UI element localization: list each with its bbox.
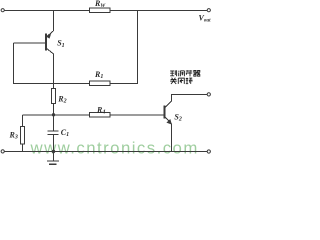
wire left feedback loop bbox=[14, 43, 90, 84]
terminal input top-left bbox=[1, 9, 4, 12]
terminal bottom-left bbox=[1, 150, 4, 153]
terminal bottom-right bbox=[207, 150, 210, 153]
svg-text:R2: R2 bbox=[57, 95, 66, 105]
hanzi 调 bbox=[178, 71, 184, 76]
wire top rail left bbox=[4, 10, 89, 12]
svg-text:C1: C1 bbox=[61, 128, 69, 138]
wire S1 emitter drop bbox=[47, 11, 53, 37]
wire R3 branch bbox=[22, 115, 24, 127]
hanzi 器 bbox=[194, 71, 200, 77]
node A junction dot bbox=[52, 113, 55, 116]
wire bottom rail bbox=[4, 151, 207, 153]
wire R2 to node A bbox=[53, 104, 55, 115]
hanzi 节 bbox=[186, 70, 192, 76]
wire R3 to bottom rail bbox=[22, 144, 24, 152]
svg-text:S1: S1 bbox=[57, 39, 64, 49]
svg-text:S2: S2 bbox=[174, 112, 181, 122]
resistor R1 bbox=[90, 81, 111, 86]
resistor R2 bbox=[52, 89, 56, 104]
wire top rail right bbox=[110, 10, 207, 12]
transistor S1 base bar bbox=[45, 34, 47, 51]
svg-text:R1: R1 bbox=[94, 70, 103, 80]
wire C1 to bottom rail bbox=[53, 135, 55, 152]
svg-text:www.cntronics.com: www.cntronics.com bbox=[30, 139, 199, 158]
wire S1 collector bbox=[47, 48, 54, 88]
wire S2 emitter bbox=[165, 117, 172, 152]
transistor S2 base bar bbox=[164, 106, 166, 119]
arrow S1 emitter (PNP into base) bbox=[46, 34, 51, 39]
wire S1 base bbox=[14, 42, 46, 44]
resistor Rw bbox=[90, 8, 111, 13]
resistor R3 bbox=[21, 127, 25, 145]
capacitor C1 bbox=[53, 115, 55, 131]
terminal Vout top-right bbox=[207, 9, 210, 12]
wire node A rail bbox=[23, 114, 90, 116]
resistor R4 bbox=[90, 113, 111, 117]
hanzi 闭 bbox=[178, 78, 184, 84]
svg-text:RW: RW bbox=[94, 0, 106, 9]
wire R1 to top rail bbox=[110, 11, 138, 84]
hanzi 端 bbox=[186, 78, 193, 84]
svg-text:R3: R3 bbox=[9, 130, 18, 140]
arrow S2 emitter (NPN outward) bbox=[166, 119, 172, 125]
svg-text:R4: R4 bbox=[96, 106, 105, 116]
hanzi 到 bbox=[170, 70, 176, 76]
hanzi 关 bbox=[170, 78, 177, 84]
wire R4 to S2 base bbox=[110, 114, 164, 116]
wire S2 collector bbox=[165, 95, 207, 108]
node B junction dot (bottom) bbox=[52, 150, 55, 153]
ground bbox=[53, 152, 55, 161]
terminal output mid-right bbox=[207, 93, 210, 96]
svg-text:Vout: Vout bbox=[199, 14, 212, 24]
